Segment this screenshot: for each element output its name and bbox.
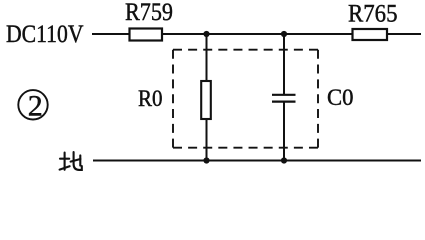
svg-text:2: 2 xyxy=(28,90,43,123)
wire R0 branch vertical xyxy=(206,34,208,161)
junction node bottom-left (R0 branch) xyxy=(203,157,209,163)
circled number 2 xyxy=(18,90,47,123)
resistor R765 xyxy=(348,1,398,41)
svg-text:R759: R759 xyxy=(125,0,173,26)
wire C0 branch upper vertical xyxy=(283,34,285,94)
svg-text:R765: R765 xyxy=(348,1,398,28)
junction node bottom-right (C0 branch) xyxy=(281,157,287,163)
junction node top-right (C0 branch) xyxy=(281,31,287,37)
wire top rail right segment xyxy=(387,33,421,35)
svg-text:C0: C0 xyxy=(327,85,354,110)
wire top rail middle segment xyxy=(162,33,352,35)
wire top rail left segment xyxy=(92,33,129,35)
resistor R759 xyxy=(125,0,173,41)
resistor R0 xyxy=(138,81,211,119)
ground label 地 (drawn glyph) xyxy=(60,152,82,170)
wire C0 branch lower vertical xyxy=(283,102,285,161)
wire ground rail xyxy=(93,160,421,162)
dashed enclosure box xyxy=(173,50,318,148)
svg-text:R0: R0 xyxy=(138,86,163,111)
capacitor C0 xyxy=(272,85,354,110)
junction node top-left (R0 branch) xyxy=(203,31,209,37)
svg-text:DC110V: DC110V xyxy=(6,21,84,48)
